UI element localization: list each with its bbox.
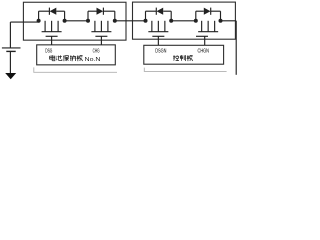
svg-text:CHG: CHG bbox=[93, 49, 100, 55]
faint next-board outline under protection board bbox=[34, 67, 117, 72]
wire Q2 to Q3 bbox=[115, 20, 146, 22]
battery cell BT bbox=[2, 22, 21, 73]
control board box bbox=[144, 45, 224, 64]
pin label DSGN bbox=[155, 49, 166, 55]
pin label DSG bbox=[45, 49, 52, 55]
node Q1 left terminal junction bbox=[37, 19, 41, 23]
transistor Q4 gate lead wire bbox=[204, 36, 206, 45]
wire Q3 to Q4 bbox=[171, 20, 196, 22]
transistor Q2 gate lead wire bbox=[100, 36, 102, 45]
MOSFET box left (protection board FET pair) bbox=[23, 2, 126, 40]
node Q3 left terminal junction bbox=[144, 19, 148, 23]
transistor Q3 channel and gate bbox=[148, 21, 168, 37]
transistor Q2 body diode bbox=[88, 8, 115, 21]
label battery protection board No.N bbox=[50, 55, 101, 63]
pin label CHGN bbox=[198, 49, 210, 55]
node Q1 right terminal junction bbox=[63, 19, 67, 23]
transistor Q4 body diode bbox=[196, 8, 221, 21]
wire Q4 to right rail bbox=[221, 20, 237, 22]
svg-text:DSGN: DSGN bbox=[155, 49, 166, 55]
transistor Q3 gate lead wire bbox=[157, 36, 159, 45]
label control board bbox=[173, 55, 193, 61]
transistor Q1 gate lead wire bbox=[51, 36, 53, 45]
svg-text:CHGN: CHGN bbox=[198, 49, 210, 55]
node Q4 right terminal junction bbox=[219, 19, 223, 23]
continuation arrow to next cell bbox=[5, 73, 16, 79]
transistor Q2 channel and gate bbox=[91, 21, 111, 37]
transistor Q1 body diode bbox=[39, 8, 65, 21]
node Q2 left terminal junction bbox=[86, 19, 90, 23]
transistor Q4 channel and gate bbox=[196, 21, 218, 37]
transistor Q3 body diode bbox=[146, 8, 172, 21]
svg-text:No.N: No.N bbox=[85, 57, 101, 63]
svg-text:DSG: DSG bbox=[45, 49, 52, 55]
node Q3 right terminal junction bbox=[169, 19, 173, 23]
pin label CHG bbox=[93, 49, 100, 55]
faint next-board outline under control board bbox=[144, 68, 226, 72]
battery protection board box No.N bbox=[37, 45, 116, 65]
wire Q1 to Q2 bbox=[65, 20, 88, 22]
wire right rail down bbox=[235, 21, 237, 75]
MOSFET box right (control board FET pair) bbox=[133, 2, 236, 39]
node Q2 right terminal junction bbox=[113, 19, 117, 23]
node Q4 left terminal junction bbox=[194, 19, 198, 23]
transistor Q1 channel and gate bbox=[42, 21, 62, 37]
wire battery positive to Q1 bbox=[10, 21, 38, 23]
